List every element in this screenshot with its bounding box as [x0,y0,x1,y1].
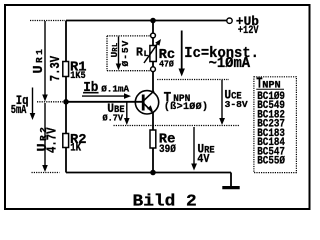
svg-text:1K: 1K [70,143,82,155]
ground [230,173,232,187]
junction dot base [63,99,69,105]
dotted ref line collector level [157,79,229,81]
wire top rail [66,20,227,22]
svg-text:4V: 4V [197,153,209,166]
arrow Iq [30,88,36,121]
arrow UBE [124,103,130,126]
wire left vertical (divider branch) [65,21,67,173]
resistor R1 [63,60,87,81]
wire emitter column [152,114,154,173]
arrow URL [116,37,122,71]
arrow Ic [179,31,185,77]
transistor collector diagonal [144,91,154,101]
svg-text:39Ø: 39Ø [159,143,176,156]
dotted ref line top-left [30,20,65,22]
dotted ref line base-left [37,101,63,103]
svg-text:Ø-5V: Ø-5V [120,40,131,67]
svg-text:BC55Ø: BC55Ø [257,155,285,168]
resistor Re [150,130,176,156]
arrow UR2 [42,103,48,172]
svg-text:47Ø: 47Ø [159,59,174,70]
transistor base bar [142,95,145,111]
svg-text:Ib: Ib [83,80,98,95]
dotted bracket URL [107,36,151,71]
arrow Ib [82,93,131,99]
svg-text:+12V: +12V [238,24,259,36]
svg-text:L: L [144,50,149,59]
transistor Q1 circle [135,91,158,114]
svg-text:~1ØmA: ~1ØmA [209,55,251,72]
svg-text:Ø.7V: Ø.7V [103,113,124,123]
dotted ref line emitter level [114,125,240,127]
svg-text:Ø.1mA: Ø.1mA [101,83,129,94]
svg-text:UR1: UR1 [32,47,47,74]
svg-text:Bild 2: Bild 2 [133,192,197,212]
wire base [66,101,144,103]
arrow UCE [219,80,225,125]
arrow UR1 [42,21,48,102]
dotted ref line bottom-left [32,172,60,174]
svg-text:(ß>1ØØ): (ß>1ØØ) [164,101,208,113]
svg-text:3-8V: 3-8V [225,99,248,110]
svg-text:7.3V: 7.3V [48,55,64,81]
wire bottom rail [66,172,231,174]
svg-text:R: R [136,47,143,60]
transistor emitter diagonal [144,104,154,114]
wire collector column [152,21,154,92]
resistor R2 [63,133,87,155]
arrow URE [191,127,197,171]
terminal +Ub [227,18,232,23]
resistor RL / Rc (variable) [136,33,175,72]
junction dot bottom [150,170,156,176]
junction dot top [150,18,156,24]
T NPN type box [254,75,297,173]
svg-text:5mA: 5mA [11,104,27,118]
svg-text:4.7V: 4.7V [44,127,60,153]
